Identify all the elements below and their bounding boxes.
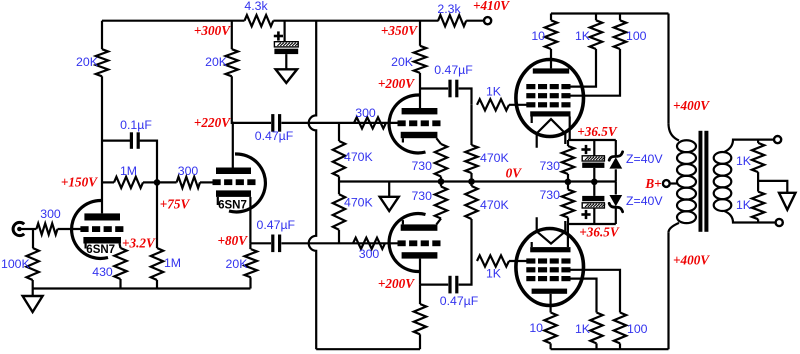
ground rail — [33, 287, 251, 289]
label 100 lower — [627, 322, 648, 336]
bottom rail right — [551, 348, 669, 350]
resistor 730 upper — [435, 144, 447, 177]
label +400V top — [673, 98, 710, 113]
resistor 20K V2 plate — [226, 49, 238, 76]
label 730 lower — [411, 189, 432, 203]
junction dot 470K upper — [468, 178, 475, 185]
label 10 upper — [531, 29, 545, 43]
svg-text:100: 100 — [627, 322, 648, 336]
svg-text:+400V: +400V — [673, 98, 710, 113]
ground 0V rail — [380, 182, 399, 212]
wire 0V to zener lower — [615, 182, 617, 195]
wire 10 lower to rail — [549, 343, 551, 349]
wire 730 bias lower — [567, 182, 569, 224]
svg-text:470K: 470K — [480, 198, 510, 212]
triode V3 cathode — [401, 132, 438, 143]
capacitor 0.47uF lower left — [273, 235, 280, 253]
wire feedback resistor to rail — [419, 334, 421, 349]
svg-text:730: 730 — [411, 159, 432, 173]
label 1M upper — [120, 164, 137, 178]
label 4.3k — [244, 0, 268, 13]
resistor 300 input — [36, 223, 57, 234]
+36.5V node line lower — [568, 223, 616, 225]
triode V2 plate — [216, 168, 251, 175]
wire V6 grid3 to 1K — [566, 279, 597, 313]
svg-text:+300V: +300V — [194, 23, 231, 38]
resistor 10 upper — [545, 20, 557, 49]
wire V6 plate lead — [549, 294, 551, 313]
node B dot — [154, 179, 161, 186]
label +75V — [160, 197, 191, 212]
label 0.47uF lower right — [440, 294, 479, 308]
wire 2.3k to terminal — [466, 20, 484, 22]
pentode V6 grid row3 — [526, 276, 570, 281]
label 20K V2 cathode — [226, 257, 249, 271]
resistor 10 lower — [544, 313, 556, 344]
svg-text:B+: B+ — [644, 176, 661, 191]
label 470K upper left — [344, 150, 374, 164]
svg-text:1K: 1K — [736, 198, 752, 212]
wire V1 cathode to 430 — [120, 244, 121, 249]
wire V4 plate lead — [419, 259, 421, 285]
svg-text:+200V: +200V — [378, 276, 415, 291]
wire +200V to cap upper right — [420, 87, 448, 89]
svg-text:Z=40V: Z=40V — [626, 194, 663, 208]
wire +400V bottom — [667, 232, 669, 349]
label 430 — [92, 265, 113, 279]
label 1K secondary lower — [736, 198, 752, 212]
wire +220V node to cap — [232, 122, 271, 124]
zener D2 — [609, 195, 622, 212]
svg-text:1K: 1K — [575, 322, 591, 336]
wire 1K to V5 grid2 — [566, 49, 596, 87]
svg-text:+80V: +80V — [218, 233, 249, 248]
resistor 100 upper — [614, 20, 626, 49]
wire rail to PSU cap — [284, 21, 286, 42]
wire 0.1uF to node B — [140, 141, 157, 183]
wire bias cap upper to 0V — [593, 168, 595, 182]
label 730 bias lower — [539, 188, 560, 202]
wire grid node to 470K upper — [470, 105, 472, 145]
svg-text:0.47µF: 0.47µF — [255, 129, 294, 143]
resistor 1K stopper upper — [477, 99, 509, 110]
zener D1 — [609, 152, 622, 169]
capacitor 0.1uF — [131, 132, 138, 149]
svg-text:10: 10 — [531, 29, 545, 43]
bottom rail left — [316, 348, 420, 350]
resistor 470K upper right — [465, 145, 477, 173]
wire cap to upper grid line — [281, 122, 397, 124]
svg-text:4.3k: 4.3k — [244, 0, 268, 13]
pentode V6 envelope — [516, 229, 584, 306]
wire 430 to ground rail — [119, 279, 121, 289]
wire 100K to ground rail — [32, 280, 34, 289]
label +300V — [194, 23, 231, 38]
resistor 1M cathode return — [151, 248, 163, 280]
svg-text:730: 730 — [411, 189, 432, 203]
resistor 730 bias upper — [562, 146, 574, 174]
wire node B to 1M lower — [156, 182, 158, 248]
junction dot 730 bias upper — [565, 179, 572, 186]
wire +350V to 20K driver — [419, 21, 421, 46]
capacitor 0.47uF upper right — [450, 80, 457, 98]
triode V4 cathode — [401, 220, 438, 231]
label 0.1uF — [120, 118, 152, 132]
junction dot bias cap upper — [591, 179, 598, 186]
label 0.47uF lower left — [257, 218, 296, 232]
top rail mid — [273, 20, 438, 22]
wire stopper to grid row lower — [509, 260, 527, 262]
wire primary bottom lead — [669, 223, 680, 232]
wire 1M lower to ground rail — [156, 280, 158, 289]
label +3.2V — [122, 236, 156, 251]
wire 470K to 0V rail — [338, 176, 340, 194]
svg-text:730: 730 — [539, 188, 560, 202]
resistor 1K secondary lower — [752, 192, 764, 220]
wire bias cap lower to node — [593, 208, 595, 224]
resistor 20K V2 cathode — [245, 249, 257, 277]
svg-text:1K: 1K — [575, 29, 591, 43]
svg-text:100K: 100K — [1, 257, 31, 271]
wire V5 cathode lead — [569, 117, 571, 141]
pentode V5 cathode — [530, 111, 570, 123]
label 1K stopper lower — [486, 267, 502, 281]
triode V1 grid — [80, 226, 123, 232]
top rail right — [551, 12, 669, 14]
svg-text:+3.2V: +3.2V — [122, 236, 156, 251]
capacitor 0.47uF upper left — [273, 114, 280, 132]
wire 300 to V1 grid — [58, 228, 82, 230]
label +36.5V lower — [579, 225, 620, 240]
resistor 1K screen upper — [590, 20, 602, 49]
svg-text:20K: 20K — [226, 257, 249, 271]
triode V1 cathode — [83, 237, 121, 249]
resistor 470K upper left — [333, 141, 345, 176]
wire rail to 10 upper — [550, 14, 552, 21]
resistor 730 bias lower — [562, 190, 574, 218]
wire cap to grid node upper — [459, 89, 472, 105]
wire 0V to bias cap lower — [593, 182, 595, 196]
wire +200V to cap lower right — [420, 284, 448, 286]
+36.5V node line upper — [568, 139, 616, 141]
wire 20K to ground rail — [249, 277, 251, 288]
wire 730 to 0V rail — [440, 177, 442, 182]
capacitor 0.47uF lower right — [450, 276, 457, 294]
wire top rail left corner — [101, 21, 103, 50]
svg-text:0.47µF: 0.47µF — [434, 63, 473, 77]
wire input to 300 — [22, 228, 37, 230]
wire 1K sec top — [757, 140, 759, 143]
svg-text:0.1µF: 0.1µF — [120, 118, 152, 132]
resistor 2.3k — [438, 15, 466, 26]
wire 1K sec bottom — [757, 219, 759, 222]
resistor 20K driver — [414, 46, 426, 73]
label 470K lower right — [480, 198, 510, 212]
svg-text:470K: 470K — [344, 196, 374, 210]
triode V2 cathode — [216, 190, 251, 205]
pentode V5 grid row1 — [526, 84, 570, 89]
svg-text:0.47µF: 0.47µF — [440, 294, 479, 308]
ground bottom-left — [23, 289, 43, 313]
svg-text:10: 10 — [529, 321, 543, 335]
svg-text:+400V: +400V — [673, 253, 710, 268]
pentode V6 plate — [532, 289, 568, 294]
label 1K screen lower — [575, 322, 591, 336]
wire node A down to 100K — [32, 229, 34, 248]
resistor 300 driver lower — [353, 238, 385, 249]
svg-text:430: 430 — [92, 265, 113, 279]
triode V4 envelope — [389, 214, 425, 272]
wire B+ feed rail with hops — [309, 21, 317, 350]
wire V3 plate lead — [419, 89, 421, 109]
wire feedback resistor to +200V node — [419, 285, 421, 304]
svg-text:1M: 1M — [164, 256, 181, 270]
label +220V — [194, 115, 231, 130]
svg-text:1M: 1M — [120, 164, 137, 178]
wire +80V node to cap — [250, 242, 271, 244]
capacitor PSU electrolytic — [274, 42, 298, 54]
transformer T1 primary — [677, 140, 696, 223]
resistor 20K V1 plate — [96, 49, 108, 76]
label B+ — [644, 176, 661, 191]
wire secondary top lead — [724, 140, 774, 153]
wire +400V top — [667, 14, 669, 124]
svg-text:20K: 20K — [76, 55, 99, 69]
svg-text:+220V: +220V — [194, 115, 231, 130]
label 6SN7 V2 — [218, 200, 247, 212]
pentode V6 heater — [537, 217, 566, 243]
wire 300 to V2 grid — [200, 181, 213, 183]
label 1K screen upper — [575, 29, 591, 43]
wire rail to 100 upper — [619, 14, 621, 21]
svg-text:6SN7: 6SN7 — [218, 200, 247, 212]
wire 20K to +200V node — [419, 73, 421, 89]
wire primary top lead — [669, 123, 680, 140]
wire zener lower to node — [615, 207, 617, 224]
wire node to bias cap upper — [593, 140, 595, 156]
svg-text:0.47µF: 0.47µF — [257, 218, 296, 232]
wire V2 cathode down — [249, 197, 251, 243]
capacitor bias upper — [582, 156, 605, 168]
svg-text:1K: 1K — [736, 154, 752, 168]
wire secondary bottom lead — [724, 211, 776, 223]
wire 20K to plate node — [101, 76, 103, 213]
pentode V5 plate — [533, 68, 569, 73]
0V rail — [339, 180, 616, 182]
svg-text:20K: 20K — [391, 55, 414, 69]
top rail left — [102, 20, 245, 22]
svg-text:+200V: +200V — [378, 76, 415, 91]
svg-text:0V: 0V — [506, 166, 523, 181]
svg-text:300: 300 — [355, 106, 376, 120]
resistor 1K secondary upper — [752, 143, 764, 172]
triode V3 grid — [398, 120, 441, 126]
label 2.3k — [437, 2, 461, 16]
svg-text:Z=40V: Z=40V — [626, 152, 663, 166]
junction dot 730 upper — [438, 178, 445, 185]
svg-text:+350V: +350V — [381, 23, 418, 38]
label 300 V2 grid — [178, 164, 199, 178]
svg-text:2.3k: 2.3k — [437, 2, 461, 16]
wire V2 cathode node down — [249, 243, 251, 249]
wire V6 cathode lead — [567, 224, 569, 247]
svg-text:+36.5V: +36.5V — [577, 124, 618, 139]
label 730 upper — [411, 159, 432, 173]
terminal +410V — [484, 17, 491, 24]
pentode V5 heater — [537, 119, 566, 148]
label 300 driver lower — [359, 247, 380, 261]
plus PSU cap — [274, 31, 283, 40]
label 20K V1 — [76, 55, 99, 69]
label Z=40V upper — [626, 152, 663, 166]
terminal output bottom — [776, 219, 783, 226]
resistor 100K — [27, 248, 39, 280]
label +150V — [61, 175, 98, 190]
wire upper grid line junction — [338, 123, 340, 141]
plus bias cap upper — [581, 145, 590, 154]
wire rail to 1K upper — [595, 14, 597, 21]
label 1K stopper upper — [486, 85, 502, 99]
wire 470K to stopper lower — [470, 219, 472, 261]
svg-text:300: 300 — [178, 164, 199, 178]
svg-text:+150V: +150V — [61, 175, 98, 190]
label 730 bias upper — [539, 159, 560, 173]
resistor 1K screen lower — [590, 313, 602, 344]
svg-text:100: 100 — [626, 29, 647, 43]
wire 470K to 0V rail right — [470, 173, 472, 182]
triode V3 envelope — [389, 95, 425, 153]
resistor feedback bottom — [414, 304, 426, 334]
svg-text:470K: 470K — [480, 151, 510, 165]
svg-text:+36.5V: +36.5V — [579, 225, 620, 240]
pentode V6 grid row2 — [526, 267, 570, 272]
pentode V5 grid row3 — [526, 102, 570, 107]
triode V1 plate — [84, 213, 120, 220]
triode V1 envelope — [72, 200, 108, 258]
svg-text:300: 300 — [359, 247, 380, 261]
label 10 lower — [529, 321, 543, 335]
label 0V — [506, 166, 523, 181]
label 0.47uF upper right — [434, 63, 473, 77]
svg-text:20K: 20K — [205, 55, 228, 69]
label 0.47uF upper left — [255, 129, 294, 143]
resistor 430 — [114, 248, 126, 279]
label +80V — [218, 233, 249, 248]
wire 10 to V5 plate — [550, 49, 552, 68]
wire B+ to transformer — [670, 182, 678, 184]
label 300 input — [40, 207, 61, 221]
resistor 300 V2 grid — [177, 177, 200, 188]
label 100 upper — [626, 29, 647, 43]
wire to 0.1uF — [102, 140, 130, 142]
wire stopper to grid row upper — [509, 104, 527, 106]
label 100K — [1, 257, 31, 271]
resistor 470K lower left — [333, 194, 345, 230]
svg-text:6SN7: 6SN7 — [86, 244, 115, 256]
resistor 100 lower — [614, 313, 626, 344]
label 1K secondary upper — [736, 154, 752, 168]
resistor 470K lower right — [465, 186, 477, 219]
svg-text:1K: 1K — [486, 85, 502, 99]
label +410V — [473, 0, 510, 13]
resistor 1M grid leak — [114, 177, 143, 188]
capacitor bias lower — [582, 196, 605, 208]
transformer T1 core — [699, 131, 709, 232]
wire plate to 1M — [102, 181, 114, 183]
wire mid node to ground — [758, 181, 787, 193]
pentode V6 cathode — [530, 242, 570, 252]
wire 1K lower to rail — [595, 343, 597, 349]
wire cap to grid node lower — [459, 261, 472, 285]
svg-text:300: 300 — [40, 207, 61, 221]
label +200V upper — [378, 76, 415, 91]
terminal output top — [774, 136, 781, 143]
wire 0V to 470K lower right — [470, 182, 472, 187]
triode V4 plate — [402, 252, 438, 258]
resistor 4.3k — [245, 15, 274, 26]
label +400V bottom — [673, 253, 710, 268]
wire 1K mid node — [757, 172, 759, 192]
triode V4 grid — [398, 240, 441, 246]
svg-text:+410V: +410V — [473, 0, 510, 13]
wire 470K to lower grid line — [338, 230, 340, 244]
pentode V6 grid row1 — [526, 258, 570, 263]
resistor 300 driver upper — [354, 117, 386, 128]
resistor 730 lower — [435, 187, 447, 219]
pentode V5 grid row2 — [526, 93, 570, 98]
pentode V5 envelope — [516, 60, 584, 137]
label 470K upper right — [480, 151, 510, 165]
wire 20K V2 to plate — [232, 76, 233, 167]
wire 730 to V4 cathode — [436, 219, 441, 225]
wire V3 cathode to 730 — [436, 138, 441, 144]
ground PSU — [276, 69, 298, 83]
terminal B+ — [663, 180, 670, 187]
wire rail to 20K V2 — [231, 21, 233, 50]
input jack J1 — [13, 222, 24, 235]
wire PSU cap to ground — [285, 54, 287, 69]
wire node B to 300 — [157, 181, 177, 183]
wire cap to lower grid line — [281, 242, 397, 244]
svg-text:+75V: +75V — [160, 197, 191, 212]
triode V3 plate — [402, 108, 438, 114]
label 1M lower — [164, 256, 181, 270]
svg-text:470K: 470K — [344, 150, 374, 164]
label Z=40V lower — [626, 194, 663, 208]
resistor 1K stopper lower — [477, 255, 509, 266]
svg-text:1K: 1K — [486, 267, 502, 281]
wire 730 bias upper — [567, 140, 569, 182]
transformer T1 secondary — [714, 152, 732, 211]
wire 1M to node B — [143, 181, 157, 183]
wire V6 grid2 to 100 — [566, 270, 620, 313]
svg-text:730: 730 — [539, 159, 560, 173]
label +36.5V upper — [577, 124, 618, 139]
triode V2 grid — [213, 179, 256, 185]
wire 100 to V5 grid3 — [566, 49, 620, 96]
label +200V lower — [378, 276, 415, 291]
label +350V — [381, 23, 418, 38]
wire zener upper to 0V — [615, 169, 617, 182]
wire node to zener upper — [615, 140, 617, 155]
triode V2 envelope — [229, 154, 265, 212]
ground output — [779, 193, 796, 210]
label 300 driver upper — [355, 106, 376, 120]
wire 0V to 730 lower — [440, 182, 442, 187]
label 6SN7 V1 — [86, 244, 115, 256]
label 20K driver — [391, 55, 414, 69]
plus bias cap lower — [581, 210, 590, 219]
